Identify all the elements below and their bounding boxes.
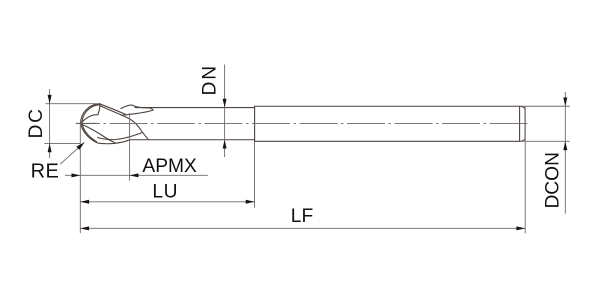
extension line tool tip vertical — [79, 123, 81, 234]
helix diagonal upper — [101, 104, 127, 114]
extension line flute end vertical — [129, 113, 131, 181]
flute lower edge — [98, 133, 142, 140]
tip gash curve lower — [81, 124, 114, 143]
ball nose outer profile — [81, 104, 130, 144]
svg-text:APMX: APMX — [142, 156, 197, 177]
flute runout leaf — [121, 105, 153, 115]
DC arrow bottom — [48, 143, 52, 152]
DC top extension line — [45, 103, 100, 105]
svg-text:DCON: DCON — [543, 152, 564, 209]
svg-text:DC: DC — [26, 107, 47, 138]
RE leader arrow — [76, 142, 84, 150]
upper gash curve — [81, 104, 100, 123]
LU arrow right — [246, 200, 255, 204]
shank left edge — [254, 106, 256, 141]
DCON arrow bottom — [563, 141, 567, 150]
svg-text:LU: LU — [152, 182, 178, 203]
DCON arrow top — [563, 97, 567, 106]
RE leader line — [60, 142, 84, 164]
shank end cap — [520, 106, 526, 141]
LF dimension line — [80, 227, 525, 229]
svg-text:LF: LF — [291, 206, 313, 227]
DC dimension line — [49, 89, 51, 158]
center line — [76, 122, 530, 124]
shank chamfer line — [519, 106, 521, 141]
neck bottom line — [130, 139, 255, 141]
shank bottom line — [255, 140, 520, 142]
DN arrow bottom — [223, 140, 227, 149]
neck top line — [135, 107, 255, 109]
shank top line — [255, 105, 520, 107]
LU arrow left — [80, 200, 89, 204]
svg-text:DN: DN — [200, 64, 221, 95]
APMX arrow left — [72, 173, 81, 177]
LF arrow right — [516, 226, 525, 230]
DCON bottom extension line — [520, 140, 570, 142]
extension line shank start vertical — [254, 141, 256, 207]
DCON top extension line — [520, 105, 570, 107]
extension line shank end vertical — [524, 106, 526, 233]
ball inner margin arc — [82, 105, 100, 142]
DC arrow top — [48, 95, 52, 104]
DN dimension line — [224, 65, 226, 158]
DN arrow top — [223, 99, 227, 108]
svg-text:RE: RE — [31, 160, 60, 182]
tip flat line — [76, 122, 96, 124]
APMX arrow right — [130, 173, 139, 177]
helix diagonal lower — [100, 106, 148, 139]
DC bottom extension line — [44, 142, 80, 144]
LF arrow left — [80, 226, 89, 230]
APMX dimension line — [65, 174, 208, 176]
DCON dimension line — [564, 92, 566, 214]
LU dimension line — [80, 201, 254, 203]
